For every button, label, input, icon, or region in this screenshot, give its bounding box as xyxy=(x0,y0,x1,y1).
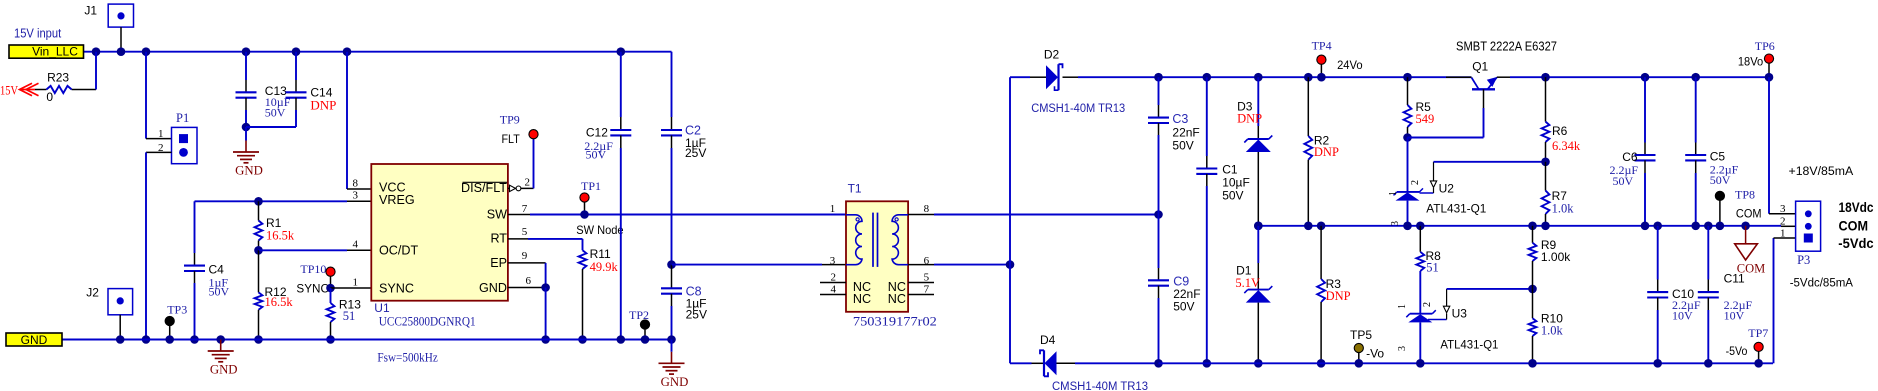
capacitor C1 xyxy=(1203,73,1212,82)
wire -Vo rail xyxy=(1159,362,1774,364)
svg-text:OC/DT: OC/DT xyxy=(379,244,418,258)
wire 18Vo rail xyxy=(1497,76,1510,78)
svg-text:0: 0 xyxy=(46,90,53,104)
ground on rail xyxy=(216,335,225,344)
svg-text:+18V/85mA: +18V/85mA xyxy=(1789,164,1854,178)
svg-text:GND: GND xyxy=(21,333,48,347)
svg-text:Fsw=500kHz: Fsw=500kHz xyxy=(377,351,438,365)
resistor R10 xyxy=(1532,289,1534,318)
capacitor C9 xyxy=(1158,215,1160,269)
svg-text:16.5k: 16.5k xyxy=(266,228,295,242)
svg-text:2: 2 xyxy=(1422,302,1433,307)
svg-text:-5Vo: -5Vo xyxy=(1726,344,1748,358)
svg-text:GND: GND xyxy=(479,281,507,295)
svg-text:50V: 50V xyxy=(586,147,607,161)
svg-text:5: 5 xyxy=(924,272,930,284)
svg-text:TP8: TP8 xyxy=(1735,188,1755,202)
svg-text:Q1: Q1 xyxy=(1472,60,1488,74)
svg-text:6: 6 xyxy=(526,275,532,287)
wire P1 pin1 drop xyxy=(142,47,151,56)
svg-text:1: 1 xyxy=(158,128,164,140)
resistor R11 xyxy=(579,250,587,269)
svg-text:1: 1 xyxy=(1397,304,1408,309)
wire T1 pin3 line xyxy=(672,264,823,266)
svg-text:5: 5 xyxy=(522,226,528,238)
testpoint TP1 xyxy=(580,193,589,202)
svg-text:-5Vdc: -5Vdc xyxy=(1838,235,1873,251)
node OC/DT xyxy=(254,246,263,255)
svg-text:50V: 50V xyxy=(1613,174,1634,188)
svg-text:ATL431-Q1: ATL431-Q1 xyxy=(1426,201,1486,215)
wire primary ground rail xyxy=(62,339,672,341)
shunt reg U2 ATL431 xyxy=(1397,191,1420,193)
wire EP stub xyxy=(508,262,546,264)
svg-text:C11: C11 xyxy=(1724,272,1745,286)
svg-text:RT: RT xyxy=(490,232,507,246)
svg-text:DNP: DNP xyxy=(1314,145,1339,159)
svg-text:3: 3 xyxy=(1397,346,1408,351)
svg-text:U3: U3 xyxy=(1452,306,1468,320)
shunt reg U3 ATL431 xyxy=(1410,313,1433,315)
svg-text:TP5: TP5 xyxy=(1350,328,1372,342)
svg-text:10V: 10V xyxy=(1672,308,1693,322)
svg-text:GND: GND xyxy=(235,164,263,178)
svg-text:15V input: 15V input xyxy=(14,26,62,40)
ground below C8 xyxy=(671,340,673,352)
svg-text:C1: C1 xyxy=(1222,163,1238,177)
resistor R2 xyxy=(1304,73,1313,82)
wire J1 stem xyxy=(120,27,122,52)
svg-text:15V: 15V xyxy=(0,82,18,97)
wire -5Vo to P3 pin1 xyxy=(1773,238,1775,363)
svg-text:SW Node: SW Node xyxy=(576,223,624,237)
svg-text:DNP: DNP xyxy=(1237,111,1262,125)
testpoint TP8 xyxy=(1715,191,1724,200)
svg-text:-Vo: -Vo xyxy=(1366,347,1384,361)
wire T1 pin6 line xyxy=(908,264,934,266)
connector J2 xyxy=(108,289,133,315)
transistor Q1 xyxy=(1472,78,1479,90)
wire P1 pin2 to gnd rail xyxy=(146,151,172,153)
wire SW line xyxy=(508,214,530,216)
svg-text:R11: R11 xyxy=(590,247,611,261)
svg-text:549: 549 xyxy=(1416,112,1435,126)
wire GND pin stub xyxy=(508,287,546,289)
resistor R12 xyxy=(258,250,260,292)
svg-text:1: 1 xyxy=(830,203,836,215)
svg-text:22nF: 22nF xyxy=(1172,126,1199,140)
net label GND xyxy=(6,333,62,346)
wire VREG line xyxy=(195,200,348,202)
testpoint TP9 xyxy=(533,139,535,189)
wire: 15V input top rail xyxy=(84,51,672,53)
T1 core xyxy=(872,213,874,267)
svg-text:2: 2 xyxy=(525,177,531,189)
svg-text:SYNC: SYNC xyxy=(379,282,414,296)
svg-text:FLT: FLT xyxy=(502,132,521,146)
svg-text:49.9k: 49.9k xyxy=(590,260,619,274)
svg-text:R6: R6 xyxy=(1552,124,1568,138)
svg-text:P3: P3 xyxy=(1797,253,1810,267)
svg-text:NC: NC xyxy=(888,292,906,306)
svg-text:10V: 10V xyxy=(1724,308,1745,322)
svg-text:GND: GND xyxy=(210,363,238,377)
svg-text:18Vdc: 18Vdc xyxy=(1839,199,1874,215)
svg-text:TP6: TP6 xyxy=(1755,39,1775,53)
svg-text:4: 4 xyxy=(353,239,359,251)
capacitor C10 xyxy=(1653,222,1662,231)
svg-text:TP1: TP1 xyxy=(581,179,601,193)
svg-text:UCC25800DGNRQ1: UCC25800DGNRQ1 xyxy=(379,313,476,328)
svg-text:50V: 50V xyxy=(265,105,286,119)
resistor R7 xyxy=(1545,162,1547,191)
svg-text:24Vo: 24Vo xyxy=(1337,58,1363,72)
svg-text:51: 51 xyxy=(343,309,356,323)
svg-text:COM: COM xyxy=(1839,218,1869,234)
wire COM to P3 pin2 xyxy=(1780,225,1782,228)
T1 right winding xyxy=(892,215,908,265)
svg-text:2: 2 xyxy=(831,272,837,284)
wire J2 stem xyxy=(119,315,121,340)
svg-text:1.0k: 1.0k xyxy=(1541,323,1564,337)
connector J1 xyxy=(108,4,133,27)
svg-text:CMSH1-40M TR13: CMSH1-40M TR13 xyxy=(1031,101,1125,115)
svg-text:CMSH1-40M TR13: CMSH1-40M TR13 xyxy=(1052,379,1148,391)
node Q1 base junction xyxy=(1403,133,1412,142)
svg-text:C4: C4 xyxy=(209,263,225,277)
T1 NC stubs xyxy=(820,282,846,284)
svg-text:C3: C3 xyxy=(1172,112,1188,126)
wire R23 to rail xyxy=(95,52,97,90)
svg-text:10µF: 10µF xyxy=(1222,176,1250,190)
connector P1 xyxy=(172,127,198,163)
svg-text:SW: SW xyxy=(487,207,507,221)
wire T1 pin8 line to C3 node xyxy=(908,214,934,216)
svg-text:TP10: TP10 xyxy=(300,262,326,276)
wire COM rail xyxy=(1258,225,1781,227)
svg-text:6.34k: 6.34k xyxy=(1552,139,1581,153)
svg-text:25V: 25V xyxy=(686,308,707,322)
svg-text:4: 4 xyxy=(831,284,837,296)
wire U3 ref line xyxy=(1447,288,1533,290)
capacitor C4 xyxy=(194,201,196,253)
svg-text:50V: 50V xyxy=(1172,139,1193,153)
capacitor C8 xyxy=(671,265,673,289)
ground below C13 xyxy=(245,127,247,141)
svg-text:1: 1 xyxy=(353,276,359,288)
testpoint TP5 xyxy=(1354,343,1363,352)
svg-text:5.1V: 5.1V xyxy=(1235,276,1260,290)
svg-text:-5Vdc/85mA: -5Vdc/85mA xyxy=(1790,276,1854,290)
resistor R8 xyxy=(1416,222,1425,231)
svg-text:GND: GND xyxy=(661,375,689,389)
capacitor C14 xyxy=(292,47,301,56)
diode D4 xyxy=(1010,362,1032,364)
capacitor C6 xyxy=(1641,73,1650,82)
svg-text:8: 8 xyxy=(353,177,359,189)
svg-text:D4: D4 xyxy=(1040,333,1056,347)
svg-text:16.5k: 16.5k xyxy=(265,295,294,309)
testpoint TP2 xyxy=(640,320,649,329)
wire RT to R11 xyxy=(508,238,528,240)
connector P3 xyxy=(1796,201,1821,251)
svg-text:50V: 50V xyxy=(1173,300,1194,314)
resistor R1 xyxy=(254,197,263,206)
wire U2 ref line xyxy=(1434,161,1546,163)
wire R5 node to U2 xyxy=(1407,138,1409,192)
svg-text:J1: J1 xyxy=(84,3,97,17)
resistor R3 xyxy=(1317,222,1326,231)
svg-text:DNP: DNP xyxy=(1326,289,1351,303)
svg-text:DIS/FLT: DIS/FLT xyxy=(461,181,507,195)
diode D2 xyxy=(1010,76,1030,78)
wire C14 bottom to C13 node xyxy=(246,126,296,128)
svg-text:P1: P1 xyxy=(176,111,189,125)
svg-text:D2: D2 xyxy=(1044,48,1060,62)
svg-text:2: 2 xyxy=(1410,180,1421,185)
svg-text:3: 3 xyxy=(1390,221,1401,226)
svg-text:1.0k: 1.0k xyxy=(1552,201,1575,215)
resistor R13 xyxy=(330,288,332,303)
svg-text:3: 3 xyxy=(1780,203,1786,215)
wire secondary center vertical xyxy=(1009,77,1011,363)
svg-text:TP3: TP3 xyxy=(167,302,187,316)
svg-text:3: 3 xyxy=(830,255,836,267)
svg-text:51: 51 xyxy=(1426,261,1439,275)
svg-text:EP: EP xyxy=(490,256,507,270)
svg-text:8: 8 xyxy=(924,203,930,215)
svg-text:7: 7 xyxy=(924,284,930,296)
svg-text:SMBT 2222A E6327: SMBT 2222A E6327 xyxy=(1456,39,1557,53)
svg-text:TP2: TP2 xyxy=(629,308,649,322)
svg-text:18Vo: 18Vo xyxy=(1738,54,1764,68)
testpoint TP3 xyxy=(165,316,174,325)
svg-text:1: 1 xyxy=(1780,227,1786,239)
resistor R6 xyxy=(1541,73,1550,82)
svg-text:SYNC: SYNC xyxy=(296,281,329,295)
net label Vin_LLC xyxy=(9,45,84,58)
wire VCC drop xyxy=(343,47,352,56)
svg-text:50V: 50V xyxy=(1222,189,1243,203)
svg-text:50V: 50V xyxy=(1710,173,1731,187)
transformer T1 xyxy=(846,201,908,311)
svg-text:1.00k: 1.00k xyxy=(1541,250,1571,264)
zener D3 xyxy=(1254,73,1263,82)
svg-text:9: 9 xyxy=(522,250,528,262)
svg-text:7: 7 xyxy=(522,203,528,215)
pin 2 DIS/FLT stub xyxy=(508,187,534,189)
T1 left winding xyxy=(846,215,862,265)
svg-text:COM: COM xyxy=(1736,206,1762,220)
svg-text:50V: 50V xyxy=(209,285,230,299)
svg-text:C12: C12 xyxy=(586,126,608,140)
capacitor C13 xyxy=(242,47,251,56)
capacitor C5 xyxy=(1691,73,1700,82)
svg-text:J2: J2 xyxy=(86,285,99,299)
svg-text:U2: U2 xyxy=(1439,181,1455,195)
svg-text:750319177r02: 750319177r02 xyxy=(853,313,937,328)
svg-text:TP9: TP9 xyxy=(500,112,520,126)
resistor R5 xyxy=(1403,73,1412,82)
svg-text:NC: NC xyxy=(853,292,871,306)
testpoint TP4 xyxy=(1317,55,1326,64)
node Vin junction xyxy=(92,47,101,56)
capacitor C2 column xyxy=(671,52,673,117)
wire OC/DT line xyxy=(259,249,348,251)
svg-text:TP4: TP4 xyxy=(1312,39,1332,53)
svg-text:2: 2 xyxy=(1780,216,1786,228)
ground COM symbol xyxy=(1741,222,1750,231)
svg-text:VREG: VREG xyxy=(379,193,415,207)
resistor R9 xyxy=(1528,222,1537,231)
capacitor C11 xyxy=(1704,222,1713,231)
svg-text:3: 3 xyxy=(353,190,359,202)
testpoint TP7 xyxy=(1754,342,1763,351)
capacitor C3 xyxy=(1154,73,1163,82)
svg-text:Vin_LLC: Vin_LLC xyxy=(32,44,78,58)
svg-text:TP7: TP7 xyxy=(1748,326,1768,340)
testpoint TP6 xyxy=(1764,54,1773,63)
svg-text:R23: R23 xyxy=(47,71,69,85)
wire SYNC line xyxy=(326,284,335,293)
IC U1 UCC25800 xyxy=(371,164,508,301)
zener D1 xyxy=(1254,222,1263,231)
capacitor C12 column xyxy=(617,47,626,56)
svg-text:T1: T1 xyxy=(848,181,862,195)
svg-text:C5: C5 xyxy=(1710,150,1726,164)
wire 18Vo to P3 pin3 xyxy=(1768,77,1770,214)
svg-text:25V: 25V xyxy=(685,146,706,160)
svg-text:DNP: DNP xyxy=(310,97,336,112)
wire 24Vo rail xyxy=(1159,76,1472,78)
svg-text:ATL431-Q1: ATL431-Q1 xyxy=(1440,337,1498,351)
svg-text:1: 1 xyxy=(1388,191,1399,196)
